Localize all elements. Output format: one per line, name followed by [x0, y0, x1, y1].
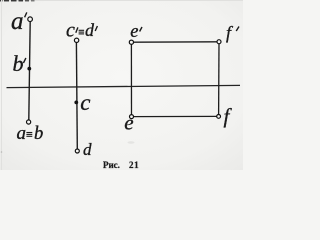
- scan artifact: faint page-top hairline: [0, 0, 243, 2]
- point e' (open circle): [129, 40, 133, 44]
- rectangle e'f'fe: top edge: [133, 41, 218, 43]
- point b' (filled dot): [27, 67, 31, 71]
- scan artifact: faint smudge below point e: [128, 141, 135, 143]
- svg-text:a: a: [11, 8, 24, 35]
- svg-text:e: e: [130, 22, 138, 42]
- point a≡b (open circle): [27, 120, 31, 124]
- svg-text:a: a: [17, 123, 27, 144]
- axis x (ground line Ox): [7, 85, 241, 87]
- point f' (open circle): [217, 40, 221, 44]
- point c'≡d' (open circle): [74, 38, 78, 42]
- point d (open circle): [75, 149, 79, 153]
- rectangle: bottom edge: [133, 115, 218, 117]
- svg-text:b: b: [34, 124, 43, 144]
- point a' (open circle): [28, 17, 33, 22]
- svg-text:Рис.: Рис.: [103, 160, 120, 170]
- scan artifact: dark dashed strip top-left edge: [0, 0, 35, 2]
- scan artifact: faint dot on left margin: [1, 151, 3, 153]
- svg-text:e: e: [124, 111, 133, 135]
- rectangle: left edge: [130, 43, 132, 115]
- svg-text:21: 21: [129, 160, 139, 170]
- svg-text:d: d: [83, 140, 92, 159]
- point e (open circle): [130, 115, 134, 119]
- svg-text:c: c: [80, 90, 90, 115]
- scan artifact: faint left page border: [1, 0, 3, 170]
- point c (filled dot): [74, 101, 78, 105]
- svg-text:c: c: [66, 19, 75, 41]
- rectangle: right edge: [218, 43, 220, 115]
- svg-text:b: b: [13, 51, 24, 76]
- wire: vertical projection line c'd'-c-d: [75, 43, 78, 149]
- wire: vertical projection line a'-b'-ab: [29, 21, 30, 120]
- svg-text:d: d: [85, 20, 95, 40]
- point f (open circle): [217, 115, 221, 119]
